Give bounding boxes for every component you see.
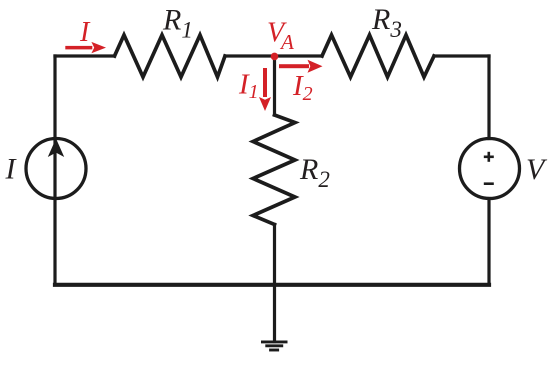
wire right vertical upper — [487, 56, 490, 139]
wire R2 to ground — [273, 225, 276, 342]
resistor R3 — [322, 35, 434, 77]
current I2 arrow (red, right) — [279, 60, 323, 73]
voltage source minus sign — [484, 182, 494, 185]
svg-text:VA: VA — [267, 17, 294, 54]
svg-text:I: I — [5, 152, 18, 185]
svg-text:I1: I1 — [238, 68, 259, 103]
ground — [261, 342, 288, 350]
resistor R2 — [253, 115, 295, 225]
svg-text:R3: R3 — [371, 3, 402, 42]
wire right vertical lower — [487, 199, 490, 285]
current I1 arrow (red, down) — [259, 68, 271, 111]
resistor R1 — [115, 35, 226, 77]
svg-text:I: I — [79, 17, 91, 48]
wire top left segment — [55, 54, 115, 57]
wire top middle segment — [225, 54, 322, 57]
current I arrow (red, top-left) — [65, 42, 106, 53]
svg-text:I2: I2 — [292, 70, 313, 105]
svg-text:V: V — [526, 153, 548, 186]
voltage source V circle — [460, 139, 520, 199]
wire bottom — [55, 283, 489, 287]
wire left vertical — [53, 56, 56, 285]
svg-text:R2: R2 — [299, 153, 330, 192]
node A dot — [271, 53, 279, 61]
svg-text:R1: R1 — [162, 4, 193, 43]
wire top right segment — [434, 54, 489, 57]
current source I circle — [26, 139, 86, 199]
current source arrow head — [48, 139, 64, 158]
voltage source plus sign — [484, 152, 494, 162]
wire node to R2 — [273, 56, 276, 115]
